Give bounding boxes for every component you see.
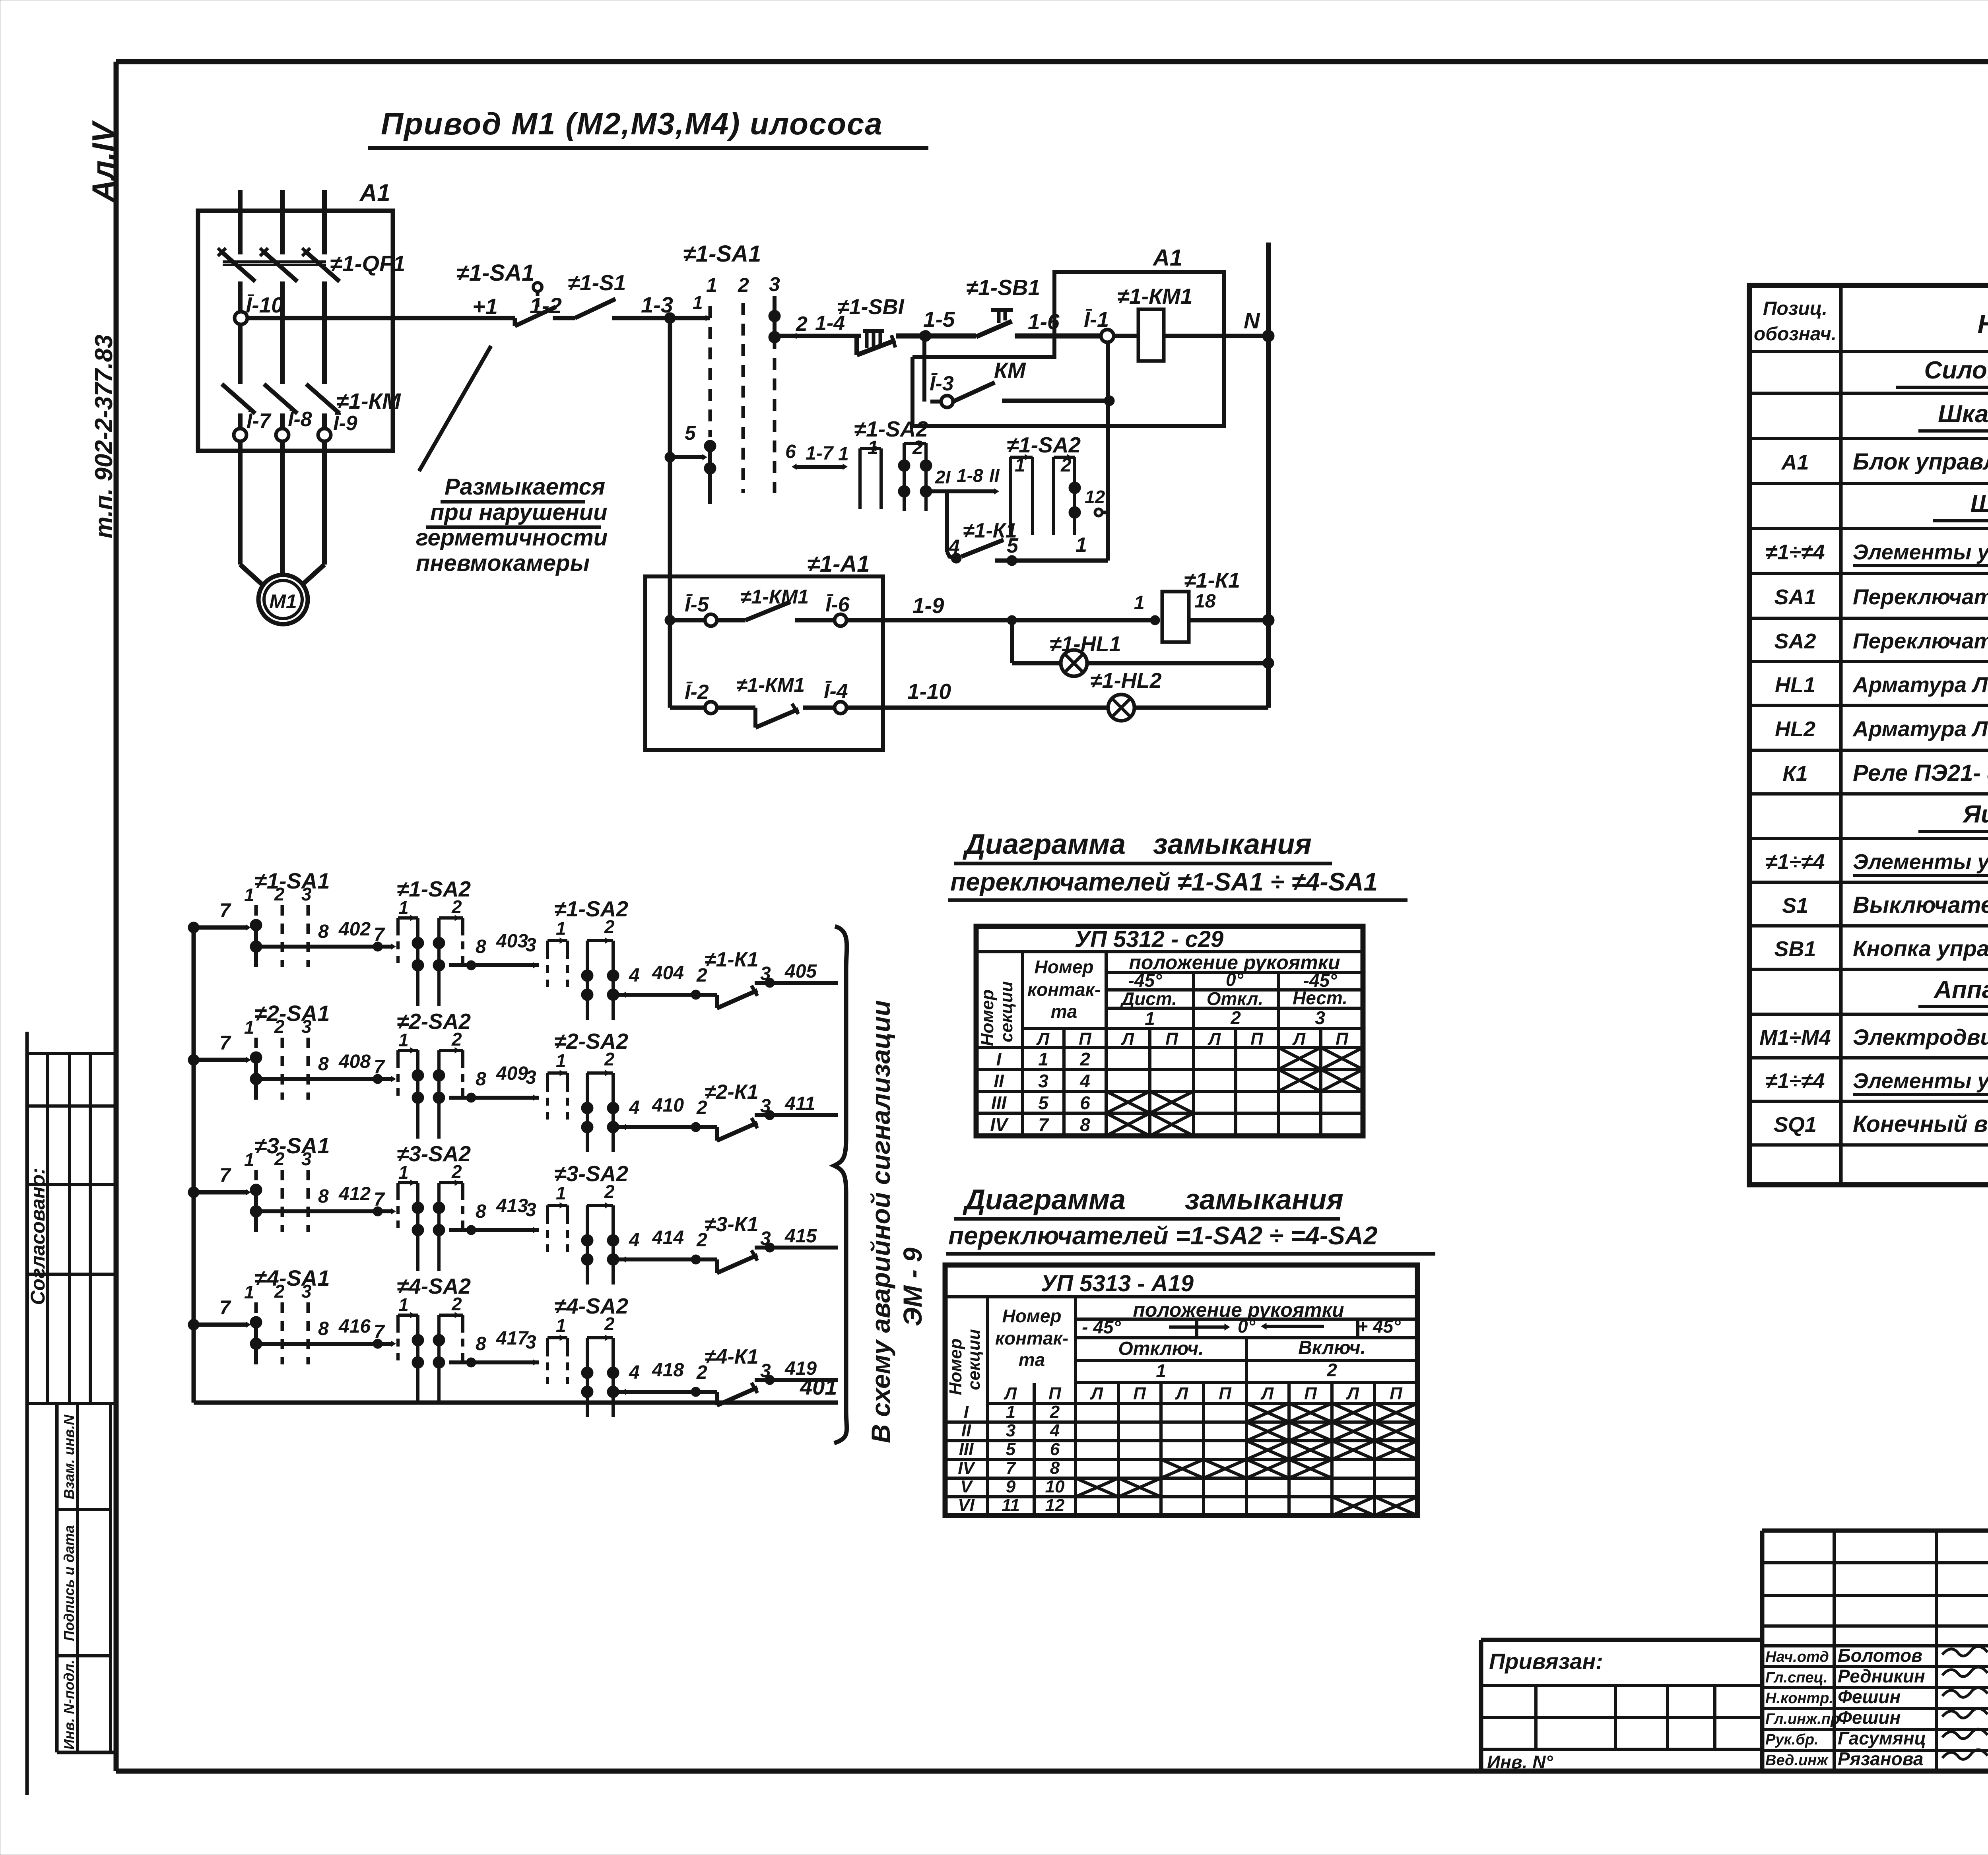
stamp table Согласовано — [27, 1054, 116, 1403]
svg-text:1: 1 — [398, 897, 409, 918]
svg-text:М1: М1 — [269, 590, 297, 613]
svg-text:Размыкается: Размыкается — [445, 474, 605, 500]
svg-text:I: I — [996, 1049, 1002, 1069]
svg-text:Переключатель УП5312- С29У3 р: Переключатель УП5312- С29У3 рев. — [1853, 584, 1988, 609]
parts list table — [1749, 285, 1988, 1185]
svg-text:7: 7 — [219, 899, 231, 922]
switch section ≠4-SA2 (b) — [547, 1294, 628, 1417]
svg-text:1: 1 — [556, 918, 566, 939]
wire 402 — [262, 919, 396, 951]
svg-text:2: 2 — [274, 1149, 285, 1169]
switch section ≠4-SA1 — [244, 1265, 330, 1364]
svg-text:≠1-К1: ≠1-К1 — [1184, 569, 1240, 592]
svg-text:18: 18 — [1194, 591, 1216, 612]
svg-text:3: 3 — [301, 1016, 312, 1037]
svg-text:4: 4 — [629, 1097, 640, 1118]
svg-text:А1: А1 — [1780, 450, 1809, 474]
svg-text:1-5: 1-5 — [923, 307, 955, 332]
block A1 (control unit outline) — [912, 245, 1224, 426]
svg-text:+1: +1 — [472, 294, 498, 319]
svg-text:2: 2 — [274, 1016, 285, 1037]
svg-text:12: 12 — [1085, 487, 1105, 507]
wire to N — [1164, 308, 1268, 336]
svg-text:Н.контр.: Н.контр. — [1765, 1690, 1833, 1707]
wire 417 — [449, 1328, 539, 1367]
table УП 5312-с29 — [976, 926, 1363, 1136]
svg-text:Позиц.: Позиц. — [1763, 298, 1827, 319]
svg-text:6: 6 — [1050, 1440, 1060, 1459]
wire 5 (to SA1 col1) — [665, 422, 707, 462]
switch section ≠1-SA2 (right) — [1007, 433, 1081, 535]
svg-text:УП 5313 - А19: УП 5313 - А19 — [1041, 1271, 1194, 1296]
switch section ≠1-SA2 (b) — [547, 896, 628, 1020]
svg-text:2: 2 — [1050, 1402, 1060, 1422]
svg-text:≠1-SBI: ≠1-SBI — [837, 295, 905, 319]
svg-text:≠1-SA1: ≠1-SA1 — [456, 260, 534, 286]
svg-text:П: П — [1048, 1384, 1062, 1403]
svg-text:1: 1 — [398, 1030, 409, 1050]
svg-text:Взам. инв.N: Взам. инв.N — [61, 1415, 77, 1500]
node 1-3 junction — [664, 312, 676, 324]
svg-text:≠1-SA2: ≠1-SA2 — [1007, 433, 1081, 457]
svg-text:Ī-5: Ī-5 — [685, 593, 709, 616]
wire 2 / 1-4 — [775, 312, 861, 339]
svg-text:Ящик 1Я (2Я... 4Я): Ящик 1Я (2Я... 4Я) — [1962, 801, 1988, 828]
svg-text:≠4-SA2: ≠4-SA2 — [554, 1294, 628, 1318]
svg-text:Наименование: Наименование — [1978, 309, 1988, 339]
breaker ≠1-QF1 — [218, 248, 405, 281]
svg-text:Редникин: Редникин — [1838, 1666, 1925, 1686]
motor M1 — [258, 575, 308, 624]
wire 415 — [755, 1226, 838, 1252]
svg-text:П: П — [1390, 1384, 1403, 1403]
svg-text:герметичности: герметичности — [416, 525, 608, 551]
contact ≠1-K1 (4-5) — [947, 491, 1017, 563]
svg-text:8: 8 — [476, 936, 486, 957]
svg-text:III: III — [959, 1440, 974, 1459]
terminal I-8 — [276, 408, 312, 441]
svg-text:переключателей ≠1-SA1 ÷ ≠4-SA1: переключателей ≠1-SA1 ÷ ≠4-SA1 — [950, 867, 1378, 896]
svg-text:≠1÷≠4: ≠1÷≠4 — [1766, 540, 1825, 564]
svg-text:П: П — [1133, 1384, 1146, 1403]
wire 1-2 — [530, 293, 575, 318]
svg-text:П: П — [1165, 1029, 1178, 1049]
svg-text:7: 7 — [374, 1057, 385, 1078]
wire 412 — [262, 1184, 396, 1216]
sheet title — [368, 106, 928, 148]
svg-text:7: 7 — [374, 1189, 385, 1210]
svg-text:5: 5 — [1038, 1092, 1049, 1113]
signal row 3: bus junction — [188, 1164, 250, 1198]
svg-text:Арматура ЛС53 V 220В цвет к: Арматура ЛС53 V 220В цвет красн. — [1852, 672, 1988, 697]
svg-text:8: 8 — [318, 921, 329, 942]
svg-text:≠1÷≠4: ≠1÷≠4 — [1766, 850, 1825, 874]
svg-text:2: 2 — [604, 1314, 615, 1334]
svg-text:Гл.инж.пр: Гл.инж.пр — [1765, 1711, 1840, 1727]
svg-text:Привязан:: Привязан: — [1489, 1649, 1603, 1674]
svg-text:7: 7 — [374, 1321, 385, 1343]
switch ≠1-S1 — [568, 270, 626, 318]
svg-text:Гасумянц: Гасумянц — [1838, 1728, 1926, 1748]
button ≠1-SB1 (start, NO) — [966, 275, 1040, 337]
svg-text:0°: 0° — [1226, 969, 1244, 990]
svg-text:Фешин: Фешин — [1838, 1686, 1901, 1707]
contact ≠4-K1 — [705, 1345, 759, 1405]
svg-text:та: та — [1051, 1001, 1077, 1022]
svg-text:3: 3 — [526, 1332, 536, 1353]
svg-text:402: 402 — [338, 919, 371, 940]
svg-text:SQ1: SQ1 — [1774, 1113, 1817, 1137]
svg-text:замыкания: замыкания — [1153, 829, 1312, 860]
svg-text:3: 3 — [301, 1149, 312, 1169]
svg-text:4: 4 — [948, 536, 960, 558]
svg-text:Диаграмма: Диаграмма — [962, 829, 1126, 860]
wire 414 — [619, 1227, 717, 1264]
wire 1-9 — [847, 593, 1155, 625]
svg-text:8: 8 — [318, 1318, 329, 1339]
svg-text:HL1: HL1 — [1775, 673, 1815, 697]
switch section ≠2-SA1 — [244, 1001, 330, 1100]
svg-text:1: 1 — [244, 1149, 254, 1170]
svg-text:Аппаратура по месту: Аппаратура по месту — [1933, 976, 1988, 1003]
svg-text:1: 1 — [1156, 1360, 1166, 1381]
svg-text:- 45°: - 45° — [1082, 1317, 1121, 1337]
svg-text:7: 7 — [1006, 1458, 1017, 1478]
svg-text:Инв. N°: Инв. N° — [1487, 1752, 1553, 1772]
svg-text:HL2: HL2 — [1775, 717, 1815, 741]
svg-text:≠1÷≠4: ≠1÷≠4 — [1766, 1069, 1825, 1093]
svg-text:1-2: 1-2 — [530, 293, 562, 318]
svg-text:III: III — [991, 1092, 1007, 1113]
svg-text:Дист.: Дист. — [1120, 988, 1177, 1009]
svg-text:≠1-SB1: ≠1-SB1 — [966, 275, 1040, 300]
svg-text:6: 6 — [785, 441, 796, 462]
switch section ≠3-SA2 (b) — [547, 1161, 628, 1285]
wire 404 — [619, 962, 717, 999]
svg-text:403: 403 — [496, 931, 528, 952]
wire 401 — [194, 1374, 838, 1403]
switch section ≠4-SA2 (a) — [397, 1274, 471, 1403]
svg-text:К1: К1 — [1782, 762, 1807, 786]
switch section ≠2-SA2 (b) — [547, 1029, 628, 1152]
svg-text:1: 1 — [556, 1183, 566, 1203]
svg-text:Кнопка управления ПКЕ 212- 2: Кнопка управления ПКЕ 212- 2 — [1853, 936, 1988, 961]
coil ≠1-KM1 — [1114, 284, 1192, 361]
svg-text:Ал.IV: Ал.IV — [85, 120, 120, 203]
heading: диаграмма замыкания переключателей SA2 — [946, 1184, 1435, 1254]
svg-text:Отключ.: Отключ. — [1118, 1338, 1204, 1359]
stamp table Инв/Подпись/Взам — [57, 1403, 116, 1752]
phase wires L1 L2 L3 — [240, 190, 324, 254]
svg-text:контак-: контак- — [995, 1328, 1068, 1349]
svg-text:7: 7 — [219, 1164, 231, 1186]
svg-text:3: 3 — [1038, 1071, 1048, 1091]
svg-text:Включ.: Включ. — [1298, 1337, 1366, 1358]
svg-text:3: 3 — [760, 1360, 771, 1382]
svg-text:Рязанова: Рязанова — [1838, 1748, 1923, 1769]
switch section ≠1-SA1 — [244, 868, 330, 967]
svg-text:2: 2 — [604, 916, 615, 937]
svg-text:Номер: Номер — [978, 990, 997, 1046]
svg-text:1: 1 — [244, 885, 254, 905]
svg-text:II: II — [961, 1421, 971, 1440]
svg-text:417: 417 — [496, 1328, 529, 1349]
svg-text:Электродвигатель А02-12 - 14: Электродвигатель А02-12 - 14 — [1853, 1025, 1988, 1050]
wire I-1 vertical branch — [1106, 342, 1110, 561]
svg-text:контак-: контак- — [1027, 979, 1101, 1000]
svg-text:П: П — [1219, 1384, 1232, 1403]
svg-text:5: 5 — [685, 422, 696, 444]
switch section ≠3-SA2 (a) — [397, 1141, 471, 1271]
svg-text:Диаграмма: Диаграмма — [962, 1184, 1126, 1216]
svg-text:401: 401 — [800, 1374, 837, 1399]
svg-text:Рук.бр.: Рук.бр. — [1765, 1731, 1819, 1748]
svg-text:Номер: Номер — [946, 1339, 965, 1395]
svg-text:7: 7 — [374, 924, 385, 945]
svg-text:≠1-SA1: ≠1-SA1 — [254, 868, 330, 893]
wire 416 — [262, 1316, 396, 1349]
svg-text:≠4-SA1: ≠4-SA1 — [254, 1265, 330, 1290]
svg-text:+ 45°: + 45° — [1357, 1316, 1401, 1337]
svg-text:IV: IV — [958, 1458, 976, 1478]
svg-text:Фешин: Фешин — [1838, 1707, 1901, 1728]
svg-text:Ī-4: Ī-4 — [824, 680, 848, 703]
svg-text:V: V — [960, 1477, 973, 1496]
svg-text:412: 412 — [338, 1184, 371, 1205]
svg-text:1: 1 — [1038, 1049, 1048, 1069]
svg-text:2: 2 — [451, 1294, 462, 1314]
svg-text:1: 1 — [1145, 1008, 1155, 1029]
svg-text:Шкаф присоединений: Шкаф присоединений — [1938, 400, 1988, 428]
svg-text:2: 2 — [274, 884, 285, 904]
svg-text:8: 8 — [1050, 1458, 1060, 1478]
table УП 5313-А19 — [945, 1265, 1417, 1515]
wire 6 / 1-7 / 1 — [785, 441, 849, 470]
svg-text:≠1-КМ1: ≠1-КМ1 — [1117, 284, 1192, 309]
svg-text:≠1-QF1: ≠1-QF1 — [330, 251, 405, 276]
svg-text:7: 7 — [219, 1296, 231, 1319]
svg-text:416: 416 — [338, 1316, 371, 1337]
svg-text:Л: Л — [1004, 1384, 1017, 1403]
switch section ≠2-SA2 (a) — [397, 1009, 471, 1139]
svg-text:2: 2 — [1079, 1049, 1090, 1069]
svg-text:≠1-SA1: ≠1-SA1 — [683, 241, 761, 267]
svg-text:2: 2 — [451, 896, 462, 917]
coil ≠1-K1 — [1134, 569, 1274, 642]
svg-text:9: 9 — [1006, 1477, 1016, 1496]
lamp ≠1-HL1 — [1012, 620, 1274, 676]
svg-text:3: 3 — [760, 1228, 771, 1249]
svg-text:Ī-7: Ī-7 — [247, 409, 272, 433]
svg-text:4: 4 — [1050, 1421, 1060, 1440]
svg-text:2: 2 — [1230, 1007, 1241, 1028]
svg-text:≠1-S1: ≠1-S1 — [568, 270, 626, 295]
wire 1-3 — [612, 292, 710, 318]
svg-text:I: I — [964, 1402, 969, 1422]
svg-text:3: 3 — [526, 1067, 536, 1088]
svg-text:8: 8 — [1080, 1114, 1090, 1135]
svg-text:Л: Л — [1292, 1029, 1306, 1049]
svg-text:≠1-К1: ≠1-К1 — [705, 948, 759, 971]
svg-text:Элементы управления эл/дв. М1.: Элементы управления эл/дв. М1... М4 — [1853, 850, 1988, 874]
svg-text:2: 2 — [604, 1049, 615, 1069]
svg-text:404: 404 — [652, 962, 684, 984]
block A1 (power assembly box) — [198, 179, 393, 451]
svg-text:Вед.инж: Вед.инж — [1765, 1752, 1829, 1769]
brace to alarm scheme — [834, 926, 847, 1443]
svg-text:пневмокамеры: пневмокамеры — [416, 550, 590, 576]
svg-text:11: 11 — [1002, 1496, 1020, 1515]
svg-text:1: 1 — [838, 444, 849, 465]
svg-text:2: 2 — [274, 1281, 285, 1302]
contact ≠1-KM1 NO (I-5 / I-6) — [670, 586, 850, 626]
svg-text:Конечный выключатель: Конечный выключатель — [1853, 1111, 1988, 1137]
svg-text:≠4-К1: ≠4-К1 — [705, 1345, 759, 1368]
svg-text:Блок управления 12: Блок управления 12 — [1853, 449, 1988, 475]
svg-text:1: 1 — [693, 292, 703, 313]
svg-text:409: 409 — [496, 1063, 528, 1084]
svg-text:8: 8 — [318, 1054, 329, 1075]
svg-text:II: II — [994, 1071, 1004, 1091]
svg-text:Нест.: Нест. — [1293, 988, 1347, 1008]
svg-text:≠1-SA2: ≠1-SA2 — [554, 896, 628, 921]
svg-text:≠2-К1: ≠2-К1 — [705, 1081, 759, 1104]
svg-text:8: 8 — [476, 1069, 486, 1090]
wire 408 — [262, 1051, 396, 1084]
svg-text:т.п. 902-2-377.83: т.п. 902-2-377.83 — [90, 335, 118, 539]
svg-text:2: 2 — [604, 1181, 615, 1202]
svg-text:≠1-А1: ≠1-А1 — [807, 551, 870, 577]
svg-text:обознач.: обознач. — [1754, 324, 1837, 345]
svg-text:П: П — [1304, 1384, 1317, 1403]
stamp т.п. 902-2-377.83 — [90, 335, 118, 539]
svg-text:2: 2 — [451, 1161, 462, 1182]
signal bus (left vertical) — [192, 927, 196, 1403]
svg-text:Переключатель УП5313- А19У3 ре: Переключатель УП5313- А19У3 рев. — [1853, 629, 1988, 653]
svg-text:секции: секции — [964, 1329, 984, 1390]
svg-text:4: 4 — [1079, 1071, 1090, 1091]
svg-text:VI: VI — [958, 1496, 975, 1515]
terminal I-9 — [318, 412, 357, 441]
svg-text:405: 405 — [784, 961, 817, 982]
svg-text:при нарушении: при нарушении — [430, 499, 608, 525]
svg-text:ЭМ - 9: ЭМ - 9 — [898, 1248, 927, 1326]
svg-text:2: 2 — [451, 1029, 462, 1050]
svg-text:П: П — [1250, 1029, 1264, 1049]
svg-text:1: 1 — [398, 1162, 409, 1183]
button ≠1-SB1 (stop, NC) — [837, 295, 905, 355]
svg-text:12: 12 — [1045, 1496, 1065, 1515]
svg-text:Инв. N-подл.: Инв. N-подл. — [61, 1660, 77, 1750]
note: размыкается при нарушении герметичности пневмокамеры — [416, 346, 608, 576]
terminal I-1 — [1084, 308, 1114, 342]
svg-text:Элементы управления эл/дв. М1.: Элементы управления эл/дв. М1... М4 — [1853, 1069, 1988, 1093]
svg-text:≠1-КМ1: ≠1-КМ1 — [736, 674, 805, 696]
svg-text:В схему аварийной сигнализации: В схему аварийной сигнализации — [866, 1000, 895, 1443]
node N bus — [1262, 243, 1274, 708]
svg-text:1: 1 — [1076, 534, 1087, 557]
svg-text:Согласовано:: Согласовано: — [27, 1168, 49, 1305]
svg-text:3: 3 — [301, 884, 312, 904]
svg-text:3: 3 — [760, 963, 771, 984]
svg-text:411: 411 — [784, 1093, 815, 1114]
block ≠1-A1 — [645, 551, 883, 750]
svg-text:6: 6 — [1080, 1092, 1090, 1113]
wire 410 — [619, 1095, 717, 1132]
svg-text:408: 408 — [338, 1051, 371, 1072]
svg-text:Привод М1 (М2,М3,М4) илосос: Привод М1 (М2,М3,М4) илососа — [381, 106, 883, 141]
svg-text:переключателей =1-SA2 ÷ =4-SA: переключателей =1-SA2 ÷ =4-SA2 — [948, 1221, 1378, 1250]
svg-text:415: 415 — [784, 1226, 817, 1247]
svg-text:SВ1: SВ1 — [1774, 937, 1816, 961]
svg-text:А1: А1 — [359, 179, 390, 206]
svg-text:3: 3 — [769, 273, 780, 295]
svg-text:3: 3 — [1315, 1007, 1325, 1028]
switch section ≠1-SA1 (columns 1 2 3) — [683, 241, 780, 504]
wire 2I / 1-8 / II — [926, 465, 1000, 494]
svg-text:4: 4 — [629, 965, 640, 986]
svg-text:SА2: SА2 — [1774, 629, 1816, 653]
contact 12 — [1085, 487, 1108, 516]
svg-text:≠2-SA1: ≠2-SA1 — [254, 1001, 330, 1026]
contact ≠1-KM1 NC (I-2 / I-4) — [670, 674, 848, 728]
contact ≠1-K1 — [705, 948, 759, 1008]
svg-text:8: 8 — [318, 1186, 329, 1207]
svg-text:1: 1 — [398, 1294, 409, 1315]
svg-text:Элементы управления эл/дв. М1.: Элементы управления эл/дв. М1... М4 — [1853, 540, 1988, 564]
wires to motor — [240, 441, 324, 588]
heading: диаграмма замыкания переключателей SA1 — [948, 829, 1408, 900]
svg-text:N: N — [1244, 308, 1260, 333]
svg-text:Л: Л — [1175, 1384, 1188, 1403]
lamp ≠1-HL2 — [1090, 669, 1268, 721]
svg-text:1-7: 1-7 — [806, 443, 834, 464]
terminal I-7 — [234, 409, 272, 441]
wire 413 — [449, 1195, 539, 1235]
svg-text:4: 4 — [629, 1362, 640, 1383]
svg-text:Ī-10: Ī-10 — [246, 293, 283, 317]
svg-text:2: 2 — [738, 274, 749, 296]
wire +1 — [247, 294, 515, 319]
svg-text:414: 414 — [652, 1227, 684, 1248]
svg-text:7: 7 — [1038, 1114, 1049, 1135]
svg-text:≠3-SA1: ≠3-SA1 — [254, 1133, 330, 1158]
switch section ≠1-SA2 (left) — [854, 417, 932, 511]
svg-text:П: П — [1079, 1029, 1092, 1049]
svg-text:1: 1 — [556, 1315, 566, 1336]
svg-text:КМ: КМ — [994, 358, 1026, 382]
svg-text:Л: Л — [1208, 1029, 1221, 1049]
switch ≠1-SA1 (manual breaker contact) — [456, 260, 556, 326]
switch section ≠3-SA1 — [244, 1133, 330, 1232]
svg-text:Силовая сборка РТ30-73: Силовая сборка РТ30-73 — [1924, 357, 1988, 384]
svg-text:Реле ПЭ21- 8У3 V 220В: Реле ПЭ21- 8У3 V 220В — [1853, 760, 1988, 786]
svg-text:≠1-HL2: ≠1-HL2 — [1090, 669, 1162, 693]
svg-text:10: 10 — [1045, 1477, 1065, 1496]
svg-text:≠1-HL1: ≠1-HL1 — [1050, 632, 1121, 656]
svg-text:1-10: 1-10 — [907, 679, 951, 704]
svg-text:≠3-SA2: ≠3-SA2 — [554, 1161, 628, 1186]
switch section ≠1-SA2 (a) — [397, 877, 471, 1006]
svg-text:1: 1 — [244, 1282, 254, 1302]
wire 403 — [449, 931, 539, 970]
svg-text:8: 8 — [476, 1333, 486, 1354]
wire 5-1 (to I-1 branch) — [995, 534, 1108, 566]
svg-text:2: 2 — [796, 312, 808, 336]
svg-text:Ī-9: Ī-9 — [333, 412, 357, 435]
svg-text:Ī-8: Ī-8 — [288, 408, 312, 431]
svg-text:Ī-3: Ī-3 — [930, 372, 954, 395]
